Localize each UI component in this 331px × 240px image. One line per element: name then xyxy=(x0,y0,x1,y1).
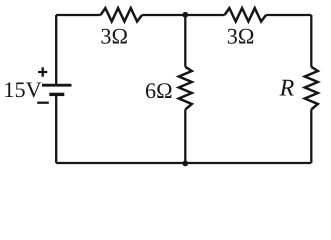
node junction dot bottom xyxy=(182,161,188,167)
node junction dot top xyxy=(182,12,188,18)
svg-text:3Ω: 3Ω xyxy=(100,24,128,49)
svg-text:15V: 15V xyxy=(3,77,41,102)
wire left upper segment xyxy=(55,15,57,84)
resistor R2 3ohm top-right xyxy=(225,8,266,21)
battery V1 short negative plate xyxy=(49,93,64,96)
svg-text:R: R xyxy=(279,76,295,102)
battery plus polarity mark xyxy=(38,67,47,76)
wire top-left segment xyxy=(56,14,100,16)
resistor R1 3ohm top-left xyxy=(101,8,143,21)
wire right lower segment xyxy=(310,110,312,164)
wire middle upper segment xyxy=(184,15,186,67)
wire right upper segment xyxy=(310,15,312,67)
battery V1 long positive plate xyxy=(42,84,72,87)
wire middle lower segment xyxy=(184,110,186,164)
battery minus polarity mark xyxy=(37,102,49,104)
svg-text:6Ω: 6Ω xyxy=(145,78,173,103)
wire top-right segment xyxy=(266,14,311,16)
svg-text:3Ω: 3Ω xyxy=(227,24,255,49)
wire top-middle segment xyxy=(142,14,225,16)
resistor R3 6ohm middle branch xyxy=(179,67,192,110)
wire left lower segment xyxy=(55,95,57,163)
resistor R4 R right branch xyxy=(305,67,318,110)
wire bottom segment xyxy=(56,162,311,164)
